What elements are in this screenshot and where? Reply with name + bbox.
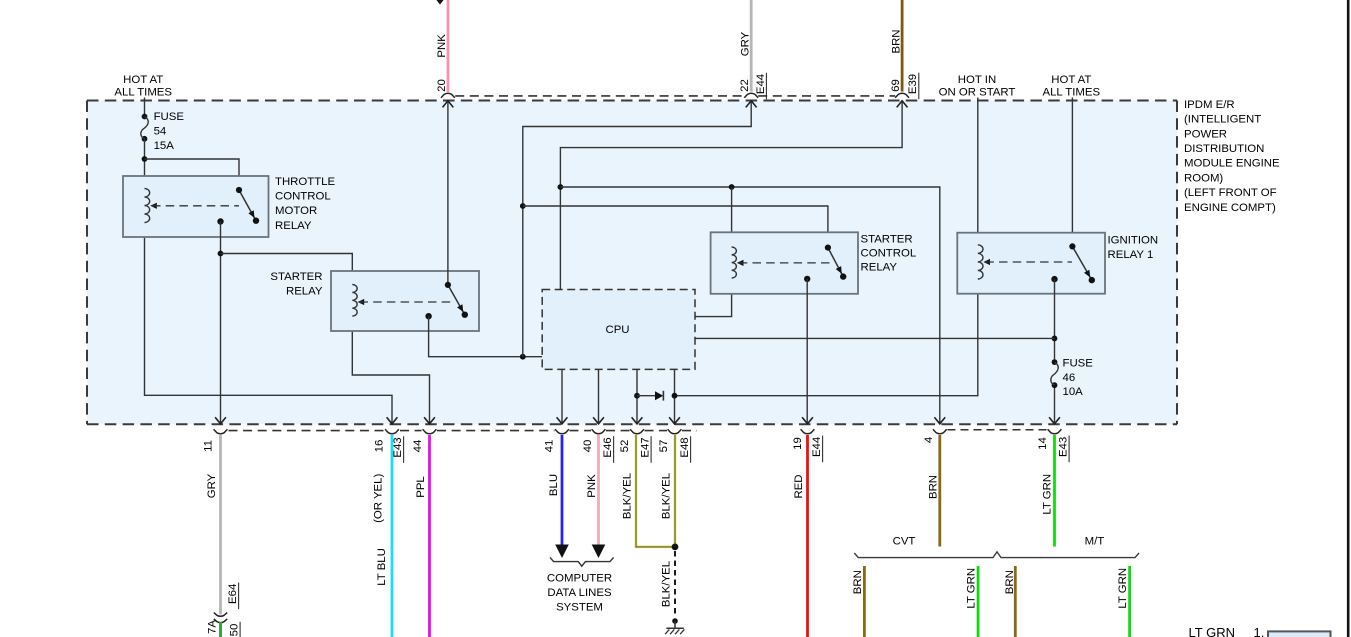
svg-text:IPDM E/R: IPDM E/R [1184, 99, 1235, 111]
label RED [793, 474, 805, 498]
label BLK/YEL ground wire [661, 561, 673, 607]
svg-text:E43: E43 [1058, 437, 1070, 457]
starter control relay switch [828, 248, 843, 277]
connector label E46 [602, 436, 614, 463]
svg-text:IGNITION: IGNITION [1108, 235, 1159, 247]
svg-text:LT GRN: LT GRN [1042, 474, 1054, 515]
connector label E64 [227, 583, 239, 610]
connector 69 entry [895, 93, 909, 107]
connector label E48 [679, 436, 691, 463]
junction node above fuse 46 [1052, 336, 1058, 342]
label THROTTLE CONTROL MOTOR RELAY [275, 176, 336, 232]
wire from fuse junction to throttle relay switch feed [145, 159, 240, 190]
svg-text:GRY: GRY [206, 473, 218, 498]
bottom connector arrows and bumps [214, 417, 1062, 434]
label PNK top [436, 34, 448, 58]
connector label E39 [907, 73, 919, 100]
dashed wire to ground [674, 551, 676, 618]
label LT BLU [376, 548, 388, 586]
starter relay switch [448, 285, 465, 315]
svg-text:10A: 10A [1063, 386, 1084, 398]
svg-text:RED: RED [793, 474, 805, 498]
svg-text:STARTER: STARTER [270, 271, 322, 283]
connector label E44 bottom [811, 436, 823, 463]
svg-text:BLK/YEL: BLK/YEL [661, 561, 673, 607]
svg-text:44: 44 [412, 440, 424, 453]
wire LT BLU from connector 16 [391, 435, 394, 637]
CPU box [542, 290, 695, 370]
wire from junction across to connector 4 [560, 187, 939, 423]
wire RED from connector 19 [806, 435, 809, 637]
svg-text:54: 54 [154, 125, 167, 137]
svg-text:PPL: PPL [415, 476, 427, 498]
connector strip dashed rows [229, 430, 698, 432]
svg-text:COMPUTER: COMPUTER [547, 573, 612, 585]
svg-text:(LEFT FRONT OF: (LEFT FRONT OF [1184, 187, 1277, 199]
ground symbol [665, 618, 684, 634]
CPU pin wire to connector 52 with diode tap [636, 369, 638, 423]
pin label 14 [1037, 437, 1049, 450]
fuse 46 label [1063, 357, 1094, 398]
pin label 19 [792, 437, 804, 450]
svg-text:E44: E44 [755, 74, 767, 94]
svg-text:CPU: CPU [605, 324, 629, 336]
pin label 41 [544, 440, 556, 453]
wire branch to starter relay coil then to connector 44 [221, 254, 430, 424]
label BLK/YEL 52 [622, 473, 634, 519]
svg-text:E48: E48 [679, 437, 691, 457]
fuse 54 label [154, 111, 185, 152]
pin label 4 [923, 437, 935, 443]
svg-text:E43: E43 [392, 437, 404, 457]
svg-text:HOT AT: HOT AT [123, 74, 163, 86]
wire from HOT AT ALL TIMES to fuse 54 [144, 98, 146, 117]
junction node below fuse 54 [142, 156, 148, 162]
pin label 11 [203, 440, 215, 452]
wire BRN from top [901, 0, 904, 92]
partial wire label at bottom edge [207, 620, 219, 634]
svg-text:ALL TIMES: ALL TIMES [1042, 87, 1100, 99]
svg-text:E64: E64 [227, 584, 239, 604]
svg-text:HOT IN: HOT IN [958, 74, 996, 86]
junction node on CPU top feed [558, 184, 564, 190]
label IGNITION RELAY 1 [1108, 235, 1159, 262]
ignition relay box [957, 233, 1105, 294]
svg-text:LT BLU: LT BLU [376, 548, 388, 586]
svg-text:RELAY: RELAY [286, 286, 323, 298]
pin label 22 [739, 79, 751, 92]
svg-text:14: 14 [1037, 437, 1049, 450]
pin label 52 [619, 440, 631, 453]
connector 20 entry [441, 93, 455, 107]
label LT GRN CVT [966, 568, 978, 609]
wire PNK from connector 40 [597, 435, 600, 547]
svg-text:PNK: PNK [436, 34, 448, 58]
svg-text:11: 11 [203, 440, 215, 452]
label GRY [206, 473, 218, 498]
svg-text:E39: E39 [907, 74, 919, 94]
svg-text:BRN: BRN [852, 570, 864, 594]
svg-text:BRN: BRN [891, 29, 903, 53]
label STARTER RELAY [270, 271, 323, 298]
label LT GRN 14 [1042, 474, 1054, 515]
junction node for starter control relay feed [520, 203, 526, 209]
wire HOT AT ALL TIMES to ignition relay switch feed [1071, 98, 1073, 247]
svg-text:ALL TIMES: ALL TIMES [114, 87, 172, 99]
wire starter control relay coil to CPU right [695, 187, 732, 317]
wire HOT IN ON OR START through ignition relay coil to diode line [675, 98, 978, 396]
throttle relay coil [145, 189, 150, 223]
CPU pin wire to connector 57 [674, 369, 676, 423]
svg-text:(INTELLIGENT: (INTELLIGENT [1184, 114, 1261, 126]
svg-text:GRY: GRY [740, 31, 752, 56]
svg-text:E47: E47 [640, 437, 652, 457]
svg-text:69: 69 [890, 79, 902, 92]
svg-text:MOTOR: MOTOR [275, 205, 317, 217]
wire ignition relay output through fuse 46 to connector 14 [1054, 279, 1056, 362]
wire CPU right to fuse 46 junction [695, 337, 1055, 339]
label IPDM E/R description [1184, 99, 1280, 214]
junction node on output wire [218, 251, 224, 257]
fuse 46 10A [1051, 359, 1058, 388]
CPU pin wire to connector 41 [561, 369, 563, 423]
label HOT AT ALL TIMES (right) [1042, 74, 1100, 99]
label BRN 4 [928, 475, 940, 499]
label HOT IN ON OR START [939, 74, 1016, 99]
CVT / MT distribution brace [854, 552, 1139, 558]
wire BLK/YEL from connector 52 [636, 435, 675, 547]
label PNK bottom [586, 474, 598, 498]
wire to starter control relay switch feed [523, 206, 828, 248]
svg-text:RELAY: RELAY [861, 262, 898, 274]
throttle relay dashed link [150, 203, 157, 209]
wire BLU from connector 41 [561, 435, 564, 547]
dashed bridge between connectors 4 and 14 (CVT/MT) [948, 429, 1048, 431]
starter control relay coil [732, 247, 737, 278]
svg-text:MODULE ENGINE: MODULE ENGINE [1184, 158, 1280, 170]
pin label 69 [890, 79, 902, 92]
svg-text:LT GRN: LT GRN [1189, 625, 1235, 637]
svg-text:ON OR START: ON OR START [939, 87, 1016, 99]
pin label 20 [436, 79, 448, 92]
svg-text:PNK: PNK [586, 474, 598, 498]
svg-text:POWER: POWER [1184, 128, 1227, 140]
wire starter control relay output to connector 19 [806, 279, 808, 424]
CPU pin wire to connector 40 [598, 369, 600, 423]
connector label E47 [640, 436, 652, 463]
svg-text:ENGINE COMPT): ENGINE COMPT) [1184, 202, 1276, 214]
ignition relay coil [978, 245, 983, 279]
svg-text:46: 46 [1063, 372, 1076, 384]
svg-text:19: 19 [792, 437, 804, 450]
diode [637, 391, 663, 401]
svg-text:57: 57 [658, 440, 670, 453]
pin label 50 [229, 622, 241, 637]
label BLK/YEL 57 [661, 473, 673, 519]
label PPL [415, 476, 427, 498]
pin label 57 [658, 440, 670, 453]
svg-text:BRN: BRN [928, 475, 940, 499]
page right border [1347, 0, 1350, 637]
wire BRN CVT [863, 566, 866, 637]
svg-text:CVT: CVT [893, 536, 916, 548]
wire LT GRN CVT [977, 566, 980, 637]
wire BLK/YEL from connector 57 [674, 435, 677, 547]
svg-text:ROOM): ROOM) [1184, 172, 1223, 184]
connector label E43 bottom right [1058, 436, 1070, 463]
starter relay coil [352, 285, 357, 317]
wire PPL from connector 44 [428, 435, 431, 637]
label GRY top wire [750, 0, 753, 92]
svg-text:LT GRN: LT GRN [1117, 568, 1129, 609]
svg-text:41: 41 [544, 440, 556, 453]
svg-text:BRN: BRN [1004, 570, 1016, 594]
label COMPUTER DATA LINES SYSTEM [547, 573, 612, 614]
svg-text:40: 40 [582, 440, 594, 453]
throttle relay switch [239, 190, 256, 221]
pin label 16 [374, 440, 386, 453]
svg-text:DATA LINES: DATA LINES [547, 587, 612, 599]
svg-text:BLK/YEL: BLK/YEL [661, 473, 673, 519]
svg-text:RELAY 1: RELAY 1 [1108, 249, 1154, 261]
wire PNK from top [447, 0, 450, 92]
svg-text:16: 16 [374, 440, 386, 453]
svg-text:50: 50 [229, 624, 241, 637]
svg-text:CONTROL: CONTROL [275, 191, 331, 203]
wire GRY from connector 11 [219, 435, 222, 615]
inline connector E64 [214, 613, 227, 623]
label BRN top [891, 29, 903, 53]
brace computer data lines [550, 557, 614, 566]
connector label E44 top [755, 73, 767, 100]
svg-text:BLK/YEL: BLK/YEL [622, 473, 634, 519]
svg-text:15A: 15A [154, 140, 175, 152]
wire LT GRN from connector 14 [1053, 435, 1056, 547]
connector label E43 [392, 436, 404, 463]
IPDM E/R module outline (dashed box with light blue fill) [87, 101, 1177, 425]
label BLU [548, 474, 560, 496]
svg-text:20: 20 [436, 79, 448, 92]
label (OR YEL) [373, 474, 385, 523]
pin label 44 [412, 440, 424, 453]
throttle control motor relay box [123, 176, 269, 237]
starter control relay dashed link [737, 260, 744, 266]
component box bottom right corner [1268, 631, 1331, 637]
junction node BLK/YEL wires [672, 544, 679, 551]
junction node for starter control relay coil [729, 184, 735, 190]
svg-text:4: 4 [923, 437, 935, 443]
svg-text:(OR YEL): (OR YEL) [373, 474, 385, 523]
fuse 54 15A [141, 114, 148, 142]
svg-text:CONTROL: CONTROL [861, 248, 917, 260]
junction node diode cathode [672, 393, 678, 399]
svg-text:7A: 7A [207, 620, 219, 634]
svg-text:DISTRIBUTION: DISTRIBUTION [1184, 143, 1264, 155]
label HOT AT ALL TIMES (left) [114, 74, 172, 99]
svg-text:SYSTEM: SYSTEM [556, 602, 603, 614]
svg-text:LT GRN: LT GRN [966, 568, 978, 609]
ignition relay dashed link [983, 259, 990, 265]
wire GRN below connector E64 [219, 622, 222, 637]
connector 22 entry [744, 93, 758, 107]
top connector strip dashed rows [455, 95, 895, 97]
starter relay box [331, 271, 479, 331]
starter relay dashed link [358, 299, 365, 305]
junction node on CPU input [520, 354, 526, 360]
svg-text:RELAY: RELAY [275, 220, 312, 232]
starter control relay box [711, 232, 858, 293]
wire LT GRN MT [1128, 566, 1131, 637]
label BRN MT [1004, 570, 1016, 594]
svg-text:22: 22 [739, 79, 751, 92]
svg-text:FUSE: FUSE [1063, 357, 1094, 369]
label BRN CVT [852, 570, 864, 594]
ignition relay switch [1072, 246, 1091, 280]
svg-text:E44: E44 [811, 437, 823, 457]
wire BRN from connector 4 [938, 435, 941, 547]
svg-text:52: 52 [619, 440, 631, 453]
wire starter relay output to CPU [429, 316, 543, 357]
wire from connector 69 down and to CPU top [560, 101, 902, 290]
wire fuse54 down through throttle relay coil to lower left corner then to connector 16 [145, 139, 393, 424]
stray arrow tip top [437, 0, 444, 5]
svg-text:E46: E46 [602, 437, 614, 457]
wire starter relay switch feed up to connector 20 [447, 101, 449, 285]
svg-text:HOT AT: HOT AT [1051, 74, 1091, 86]
svg-text:STARTER: STARTER [861, 234, 913, 246]
label STARTER CONTROL RELAY [861, 234, 917, 274]
svg-text:THROTTLE: THROTTLE [275, 176, 336, 188]
svg-text:M/T: M/T [1085, 536, 1105, 548]
svg-text:BLU: BLU [548, 474, 560, 496]
svg-text:FUSE: FUSE [154, 111, 185, 123]
wire BRN MT [1014, 566, 1017, 637]
pin label 40 [582, 440, 594, 453]
label LT GRN MT [1117, 568, 1129, 609]
wire from junction up and over to connector 22 [523, 101, 751, 357]
junction node diode anode [634, 393, 640, 399]
svg-text:1.: 1. [1254, 625, 1265, 637]
wire throttle relay output down to connector 11 [220, 222, 222, 424]
